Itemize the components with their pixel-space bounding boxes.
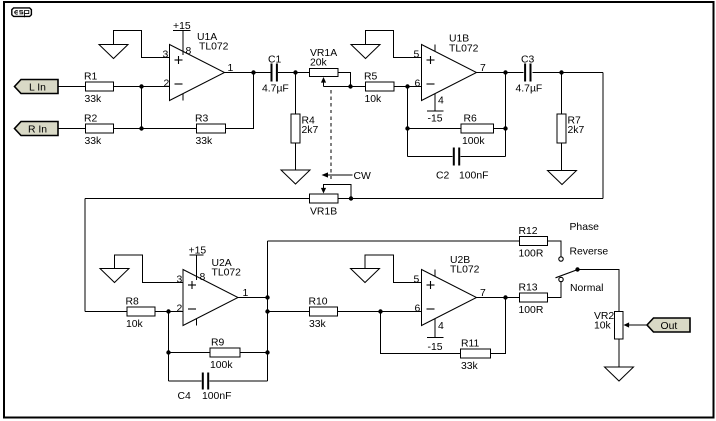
svg-text:33k: 33k bbox=[196, 136, 214, 147]
svg-text:R13: R13 bbox=[519, 283, 538, 294]
svg-text:-15: -15 bbox=[428, 114, 443, 125]
junction U2A output node bbox=[265, 295, 269, 299]
ground below R4 bbox=[281, 170, 310, 184]
resistor R10 33k bbox=[310, 307, 338, 316]
svg-text:2k7: 2k7 bbox=[302, 125, 319, 136]
svg-text:4.7µF: 4.7µF bbox=[262, 84, 289, 95]
op-amp U1B bbox=[422, 45, 477, 101]
svg-text:100nF: 100nF bbox=[459, 171, 488, 182]
wire ground to U2B pin 5 bbox=[365, 255, 422, 283]
wire to R9 bbox=[169, 352, 211, 354]
input tag R In bbox=[15, 122, 59, 136]
junction C3/R7 node bbox=[559, 70, 563, 74]
junction U1B pin 6 node bbox=[405, 84, 409, 88]
junction R2/R3 node bbox=[139, 126, 143, 130]
input tag L In bbox=[15, 80, 59, 94]
svg-text:R11: R11 bbox=[461, 339, 480, 350]
junction C1/R4/VR1A node bbox=[293, 70, 297, 74]
wire U2A output to vertical bbox=[238, 297, 268, 299]
wire C3 to R7 node bbox=[533, 72, 562, 74]
gang dashed line VR1A-VR1B bbox=[330, 90, 332, 182]
svg-text:Normal: Normal bbox=[570, 283, 604, 294]
resistor R9 100k bbox=[210, 348, 240, 357]
wire R6 to output vertical bbox=[494, 128, 506, 130]
wire R9 to output vertical bbox=[240, 352, 268, 354]
svg-text:2: 2 bbox=[177, 304, 183, 315]
svg-text:100R: 100R bbox=[519, 249, 544, 260]
wire R3 to U1A output node bbox=[226, 73, 254, 129]
resistor R3 33k bbox=[197, 124, 226, 133]
wire U1B output to C3 bbox=[477, 72, 524, 74]
op-amp U2B bbox=[422, 270, 477, 326]
svg-text:4: 4 bbox=[438, 96, 444, 107]
svg-text:8: 8 bbox=[186, 46, 192, 57]
ground for U1B pin 5 bbox=[351, 45, 380, 59]
junction R10 left node bbox=[265, 309, 269, 313]
svg-text:20k: 20k bbox=[310, 58, 328, 69]
switch contact Normal bbox=[559, 277, 563, 281]
VR1A right terminal to wiper node bbox=[338, 73, 351, 87]
U1A pin 4 stub bbox=[182, 94, 184, 101]
svg-text:100k: 100k bbox=[462, 136, 485, 147]
svg-text:33k: 33k bbox=[85, 94, 103, 105]
U1B pin 8 stub bbox=[434, 45, 436, 52]
junction R9 left node bbox=[166, 350, 170, 354]
switch lever bbox=[556, 270, 577, 278]
resistor R2 33k bbox=[86, 124, 114, 133]
svg-text:R3: R3 bbox=[195, 114, 209, 125]
resistor R6 100k bbox=[461, 124, 494, 133]
switch contact Reverse bbox=[559, 257, 563, 261]
junction U2B output node bbox=[503, 295, 507, 299]
wire R In to R2 bbox=[58, 128, 86, 130]
svg-text:TL072: TL072 bbox=[450, 265, 480, 276]
svg-text:Out: Out bbox=[661, 321, 678, 332]
junction R9 right node bbox=[265, 350, 269, 354]
svg-text:R10: R10 bbox=[309, 297, 328, 308]
resistor R13 100R bbox=[520, 293, 548, 302]
svg-text:R1: R1 bbox=[84, 72, 98, 83]
svg-text:R6: R6 bbox=[464, 114, 478, 125]
potentiometer VR1A 20k body bbox=[310, 69, 339, 77]
svg-text:10k: 10k bbox=[365, 94, 383, 105]
svg-text:C2: C2 bbox=[436, 171, 450, 182]
svg-text:TL072: TL072 bbox=[199, 42, 229, 53]
VR2 wiper arrow bbox=[624, 322, 630, 327]
wire R8 to U2A pin 2 bbox=[155, 311, 183, 313]
wire R1 to U1A pin 2 bbox=[114, 86, 170, 88]
svg-text:5: 5 bbox=[414, 50, 420, 61]
junction VR1A wiper node bbox=[348, 84, 352, 88]
wire junction down to R2/R3 node bbox=[141, 87, 143, 129]
svg-text:2: 2 bbox=[164, 79, 170, 90]
wire wiper node to R5 bbox=[324, 86, 366, 88]
capacitor C1 4.7uF bbox=[271, 64, 273, 82]
svg-text:R In: R In bbox=[28, 125, 47, 136]
svg-text:R12: R12 bbox=[519, 226, 538, 237]
svg-text:Reverse: Reverse bbox=[570, 247, 609, 258]
junction VR1B wiper node bbox=[349, 196, 353, 200]
switch common node bbox=[575, 267, 579, 271]
svg-text:2k7: 2k7 bbox=[568, 125, 585, 136]
resistor R12 100R bbox=[520, 237, 548, 246]
resistor R7 2k7 bbox=[557, 114, 566, 143]
wire pin2 node to C4 bbox=[169, 380, 202, 382]
wire R11 to U2B output bbox=[491, 298, 506, 354]
svg-text:33k: 33k bbox=[309, 319, 327, 330]
wire R13 to Normal contact bbox=[548, 282, 562, 298]
wire pin6 node to C2 bbox=[408, 156, 453, 158]
svg-text:C1: C1 bbox=[268, 55, 282, 66]
junction R6 left node bbox=[405, 126, 409, 130]
svg-text:6: 6 bbox=[415, 79, 421, 90]
svg-text:C3: C3 bbox=[521, 55, 535, 66]
wire VR1B net right portion bbox=[338, 198, 603, 200]
wire ground to U1A pin 3 bbox=[114, 31, 170, 58]
wire R7 to ground bbox=[561, 143, 563, 171]
svg-text:10k: 10k bbox=[594, 321, 612, 332]
svg-text:TL072: TL072 bbox=[449, 44, 479, 55]
wire C1 to VR1A bbox=[278, 72, 310, 74]
wire to R8 bbox=[85, 311, 127, 313]
op-amp U2A bbox=[183, 270, 238, 326]
resistor R4 2k7 bbox=[291, 114, 300, 143]
ground below R7 bbox=[548, 171, 577, 185]
resistor R5 10k bbox=[366, 82, 395, 91]
-15 supply for U2B pin 4 bbox=[434, 319, 436, 338]
svg-text:3: 3 bbox=[177, 275, 183, 286]
svg-text:3: 3 bbox=[163, 50, 169, 61]
junction U2A pin 2 node bbox=[166, 309, 170, 313]
wire R2 to R3 bbox=[114, 128, 197, 130]
capacitor C4 100nF bbox=[202, 373, 204, 390]
junction node R1/R2 tie bbox=[139, 84, 143, 88]
junction U1B output node bbox=[503, 70, 507, 74]
ground for U1A pin 3 bbox=[99, 45, 128, 59]
wire to R10 bbox=[268, 311, 310, 313]
wire C3 node to right vertical bbox=[562, 72, 604, 74]
wire left vertical down to R8 bbox=[84, 199, 86, 312]
svg-text:100R: 100R bbox=[519, 305, 544, 316]
ground below VR2 bbox=[605, 367, 634, 381]
wire VR2 to ground bbox=[618, 339, 620, 367]
svg-text:R2: R2 bbox=[84, 114, 98, 125]
U2B pin 8 stub bbox=[434, 270, 436, 277]
wire R10 to U2B pin 6 bbox=[338, 311, 422, 313]
svg-text:-15: -15 bbox=[428, 342, 443, 353]
wire U2A output vertical bbox=[267, 241, 269, 381]
ESP logo bbox=[12, 8, 32, 17]
resistor R11 33k bbox=[461, 349, 491, 358]
wire switch common to VR2 bbox=[580, 270, 620, 312]
-15 supply for U1B pin 4 bbox=[434, 94, 436, 112]
output tag Out bbox=[647, 318, 690, 332]
potentiometer VR1B body bbox=[310, 194, 339, 203]
svg-text:VR1B: VR1B bbox=[310, 207, 337, 218]
wire L In to R1 bbox=[58, 86, 86, 88]
U2A pin 4 stub bbox=[196, 319, 198, 326]
VR1B wiper arrow bbox=[321, 188, 326, 194]
wire U2B output to R13 bbox=[477, 297, 520, 299]
svg-text:100nF: 100nF bbox=[202, 391, 231, 402]
wire node down to R7 bbox=[561, 73, 563, 115]
svg-text:CW: CW bbox=[354, 171, 372, 182]
capacitor C3 4.7uF bbox=[524, 64, 526, 82]
wire node down to R4 bbox=[295, 73, 297, 115]
svg-text:Phase: Phase bbox=[570, 222, 600, 233]
ground for U2B pin 5 bbox=[351, 269, 380, 283]
wire R5 to U1B pin 6 bbox=[394, 86, 422, 88]
svg-text:C4: C4 bbox=[178, 391, 192, 402]
wire R4 to ground bbox=[295, 143, 297, 170]
svg-text:4: 4 bbox=[438, 321, 444, 332]
svg-text:4.7µF: 4.7µF bbox=[516, 84, 543, 95]
wire ground to U1B pin 5 bbox=[366, 31, 422, 58]
wire U1B pin6 node down to feedback bbox=[407, 87, 409, 157]
wire U2A pin2 node down bbox=[168, 312, 170, 382]
svg-text:5: 5 bbox=[414, 275, 420, 286]
junction U2B pin 6 node bbox=[378, 309, 382, 313]
wire to R6 bbox=[408, 128, 462, 130]
svg-text:R5: R5 bbox=[364, 72, 378, 83]
svg-text:100k: 100k bbox=[210, 360, 233, 371]
svg-text:33k: 33k bbox=[85, 136, 103, 147]
wire U1A output to C1 bbox=[225, 72, 271, 74]
resistor R1 33k bbox=[86, 82, 114, 91]
ground for U2A pin 3 bbox=[100, 269, 129, 283]
wire right vertical down to VR1B net bbox=[602, 73, 604, 199]
svg-text:6: 6 bbox=[415, 304, 421, 315]
wire feedback vertical to U1B output bbox=[505, 73, 507, 157]
svg-text:R8: R8 bbox=[126, 297, 140, 308]
wire U2B pin6 node down to R11 bbox=[381, 312, 461, 354]
junction U1A output/R3 feedback bbox=[251, 70, 255, 74]
svg-text:10k: 10k bbox=[126, 319, 144, 330]
svg-text:33k: 33k bbox=[461, 361, 479, 372]
svg-text:8: 8 bbox=[200, 272, 206, 283]
VR1A wiper arrow bbox=[321, 77, 326, 83]
wire R12 net from U2A output vertical bbox=[268, 240, 520, 242]
wire VR1B left terminal to left vertical bbox=[85, 198, 310, 200]
wire C4 to output vertical bbox=[210, 380, 268, 382]
svg-text:R9: R9 bbox=[211, 338, 225, 349]
resistor R8 10k bbox=[127, 307, 155, 316]
capacitor C2 100nF bbox=[453, 148, 455, 166]
potentiometer VR2 10k body bbox=[615, 312, 624, 340]
junction R6 right node bbox=[503, 126, 507, 130]
wire R12 to Reverse contact bbox=[548, 241, 562, 257]
wire C2 to output vertical bbox=[461, 156, 506, 158]
CW arrow bbox=[322, 172, 329, 177]
wire ground to U2A pin 3 bbox=[115, 255, 184, 283]
op-amp U1A bbox=[170, 45, 225, 101]
svg-text:L In: L In bbox=[29, 83, 46, 94]
svg-text:TL072: TL072 bbox=[212, 268, 242, 279]
